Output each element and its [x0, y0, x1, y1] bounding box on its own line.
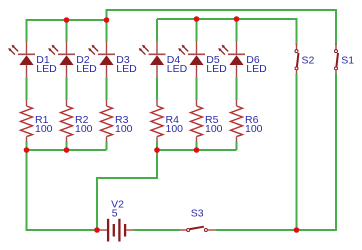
- wire R5 tail: [196, 142, 198, 151]
- svg-text:S1: S1: [341, 54, 354, 66]
- svg-text:5: 5: [112, 208, 118, 220]
- junction node battery: [94, 227, 100, 233]
- resistor R6: [231, 100, 243, 142]
- svg-text:100: 100: [166, 123, 184, 135]
- junction node D6 top: [234, 16, 240, 22]
- svg-text:S3: S3: [191, 208, 204, 220]
- svg-text:S2: S2: [302, 54, 315, 66]
- svg-text:LED: LED: [206, 63, 227, 75]
- switch S2: [295, 44, 299, 74]
- resistor R5: [191, 100, 203, 142]
- wire R6 tail: [236, 142, 238, 151]
- wire R2 tail: [66, 142, 68, 151]
- resistor R2: [61, 100, 73, 142]
- wire D3 drop: [106, 20, 108, 41]
- wire D1-R1: [26, 77, 28, 100]
- svg-text:LED: LED: [36, 63, 57, 75]
- junction node D5 top: [194, 16, 200, 22]
- wire D6-R6: [236, 77, 238, 100]
- wire D5 drop: [196, 19, 198, 41]
- wire D2 drop: [66, 20, 68, 41]
- wire D6 drop: [236, 19, 238, 41]
- switch S1: [335, 44, 339, 74]
- junction node R5 bottom: [194, 147, 200, 153]
- resistor R3: [101, 100, 113, 142]
- junction node R2 bottom: [64, 147, 70, 153]
- LED D6: [218, 41, 245, 77]
- LED D4: [139, 41, 166, 77]
- wire D4 drop: [156, 19, 158, 41]
- wire battery to S3: [134, 229, 181, 231]
- wire bottom-right rail: [97, 150, 237, 230]
- wire top-left rail: [27, 20, 107, 41]
- LED D3: [88, 41, 115, 77]
- wire D4-R4: [156, 77, 158, 100]
- wire top-right rail: [157, 19, 297, 45]
- wire outer top rail: [107, 10, 337, 45]
- switch S3: [180, 227, 216, 232]
- junction node D2 top: [64, 17, 70, 23]
- LED D2: [48, 41, 75, 77]
- resistor R1: [21, 100, 33, 142]
- junction node R4 bottom: [154, 147, 160, 153]
- svg-text:100: 100: [115, 123, 133, 135]
- wire D2-R2: [66, 77, 68, 100]
- svg-text:LED: LED: [246, 63, 267, 75]
- wire D5-R5: [196, 77, 198, 100]
- wire R4 tail: [156, 142, 158, 151]
- svg-text:LED: LED: [76, 63, 97, 75]
- wire R1 tail: [26, 142, 28, 151]
- LED D1: [8, 41, 35, 77]
- junction node R1 bottom: [24, 147, 30, 153]
- junction node D3 top: [104, 17, 110, 23]
- resistor R4: [151, 100, 163, 142]
- svg-text:100: 100: [35, 123, 53, 135]
- battery V2: [97, 219, 134, 242]
- wire bottom-left rail: [27, 150, 107, 230]
- svg-text:100: 100: [205, 123, 223, 135]
- junction node S2 bottom: [294, 227, 300, 233]
- svg-text:LED: LED: [116, 63, 137, 75]
- wire S3 to S1: [216, 74, 336, 231]
- wire S2 bottom: [296, 74, 298, 231]
- wire R3 tail: [106, 142, 108, 151]
- svg-text:LED: LED: [167, 63, 188, 75]
- svg-text:100: 100: [245, 123, 263, 135]
- svg-text:100: 100: [75, 123, 93, 135]
- wire D3-R3: [106, 77, 108, 100]
- LED D5: [178, 41, 205, 77]
